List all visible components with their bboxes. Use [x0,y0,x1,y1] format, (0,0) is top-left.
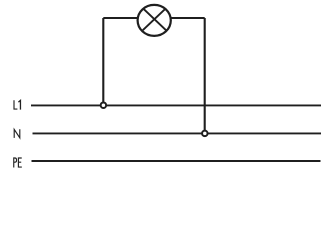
terminal junction on N [202,131,208,137]
node N rail [33,132,322,134]
label PE [14,158,22,167]
node L1 rail [31,104,321,106]
lamp E1 [138,5,171,36]
wire right vertical branch lamp to N [204,18,206,133]
terminal junction on L1 [101,102,107,108]
label L1 [14,100,20,109]
label N [14,129,20,138]
wire left vertical branch L1 to lamp [102,18,104,105]
node PE rail [32,160,321,162]
wire top horizontal from left branch to right branch [103,17,204,19]
